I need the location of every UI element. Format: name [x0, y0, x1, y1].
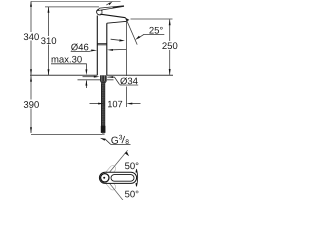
- handle swing ghost bottom: [102, 175, 117, 191]
- label 340: [23, 32, 41, 41]
- lever handle: [98, 6, 124, 11]
- 25 deg leader: [138, 34, 164, 38]
- pivot dot: [103, 177, 105, 179]
- handle capsule: [99, 172, 136, 183]
- aerator axis line: [125, 20, 127, 107]
- 25 deg diagonal: [127, 20, 138, 44]
- mounting nut: [100, 75, 107, 81]
- swing arc: [137, 169, 138, 186]
- dia46 arrows: [71, 50, 93, 53]
- 25 deg left arrow: [111, 39, 119, 40]
- wire counter underside line: [78, 79, 114, 81]
- faucet body: [96, 16, 98, 76]
- label dia 46: [71, 44, 88, 51]
- dim 340 line: [30, 1, 32, 75]
- handle swing ghost top: [102, 164, 117, 180]
- max30 leader: [51, 64, 86, 70]
- wire counter top line: [30, 74, 173, 76]
- handle grip: [111, 175, 134, 182]
- dim 390 line: [30, 76, 32, 133]
- swing diagonal bottom: [110, 183, 124, 200]
- dim 107: [90, 103, 100, 105]
- G3/8 leader: [111, 143, 131, 145]
- label 107: [106, 99, 122, 108]
- label G 3/8 thread: [111, 137, 118, 144]
- label 390: [23, 100, 41, 109]
- lever raise arrow: [106, 3, 110, 5]
- pivot circle: [101, 174, 109, 182]
- faucet spout: [100, 14, 125, 18]
- dim 310 line: [48, 7, 50, 75]
- label 50 deg bottom: [125, 191, 138, 198]
- label 25 deg: [149, 27, 162, 34]
- dim 250 line: [169, 19, 171, 75]
- label max.30: [52, 56, 82, 63]
- label 310: [40, 36, 58, 45]
- label 50 deg top: [125, 162, 138, 169]
- supply hose: [101, 83, 105, 133]
- dia34 arrows: [83, 76, 95, 78]
- swing diagonal top: [110, 150, 128, 172]
- label 250: [162, 41, 181, 50]
- label dia 34: [120, 76, 139, 85]
- handle dome: [97, 9, 103, 15]
- swing arrowhead top: [125, 152, 130, 156]
